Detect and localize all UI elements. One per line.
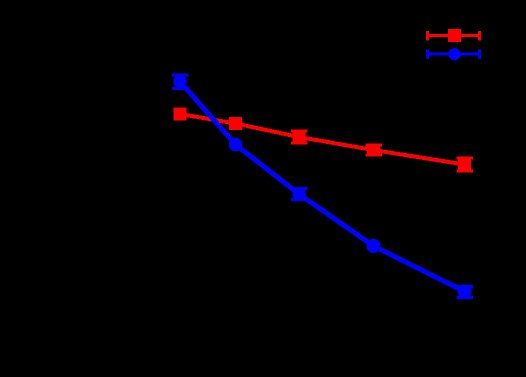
node: red errorbar P4 <box>365 144 382 157</box>
node: blue marker P4 <box>366 239 380 253</box>
node: red errorbar P5 <box>456 157 473 173</box>
node: red marker P5 <box>458 158 471 171</box>
node: red marker P3 <box>293 131 306 144</box>
node: blue errorbar P1 <box>172 74 189 91</box>
node: blue marker P2 <box>229 138 242 151</box>
node: red errorbar P3 <box>291 130 308 145</box>
node: red marker P4 <box>367 144 380 157</box>
node: red marker P1 <box>174 108 187 121</box>
node: blue marker P1 <box>173 75 186 88</box>
wire: red series line <box>180 114 465 165</box>
node: red marker P2 <box>229 117 242 130</box>
legend entry 2: blue errorbar handle <box>426 48 481 60</box>
node: blue errorbar P5 <box>456 285 473 299</box>
node: blue marker P3 <box>292 187 305 200</box>
wire: blue series line <box>180 82 465 292</box>
node: blue errorbar P3 <box>291 187 308 201</box>
node: blue marker P5 <box>458 285 472 299</box>
legend entry 1: red errorbar handle <box>426 29 481 42</box>
